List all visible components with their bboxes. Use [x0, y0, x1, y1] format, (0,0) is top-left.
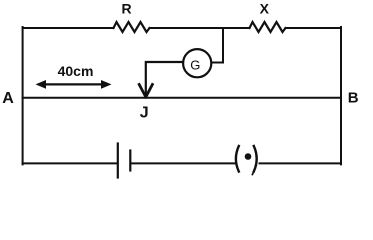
wire galvanometer-to-jockey: [146, 62, 183, 95]
wire left edge: [22, 27, 24, 164]
wire key-to-right segment: [260, 162, 342, 164]
resistor R: [114, 22, 150, 32]
wire AB (bridge wire): [23, 97, 342, 99]
battery cell: [118, 144, 131, 178]
wire battery-to-key segment: [131, 162, 235, 164]
galvanometer G: [183, 49, 211, 77]
plug key K: [236, 146, 257, 175]
wire top-left segment: [23, 27, 114, 29]
dimension arrow 40cm: [36, 80, 112, 89]
svg-text:40cm: 40cm: [58, 63, 94, 79]
svg-text:G: G: [190, 57, 200, 72]
svg-text:B: B: [348, 90, 359, 107]
svg-text:J: J: [140, 105, 149, 122]
svg-text:X: X: [260, 1, 270, 17]
wire galvanometer-to-top junction: [212, 28, 224, 63]
svg-text:A: A: [2, 90, 14, 107]
wire bottom-left segment: [23, 162, 117, 164]
resistor X: [250, 22, 286, 32]
svg-text:R: R: [121, 1, 131, 17]
jockey arrow at J: [139, 85, 152, 98]
wire right edge: [340, 27, 342, 164]
wire top-right segment: [286, 27, 342, 29]
wire top-middle segment: [150, 27, 250, 29]
